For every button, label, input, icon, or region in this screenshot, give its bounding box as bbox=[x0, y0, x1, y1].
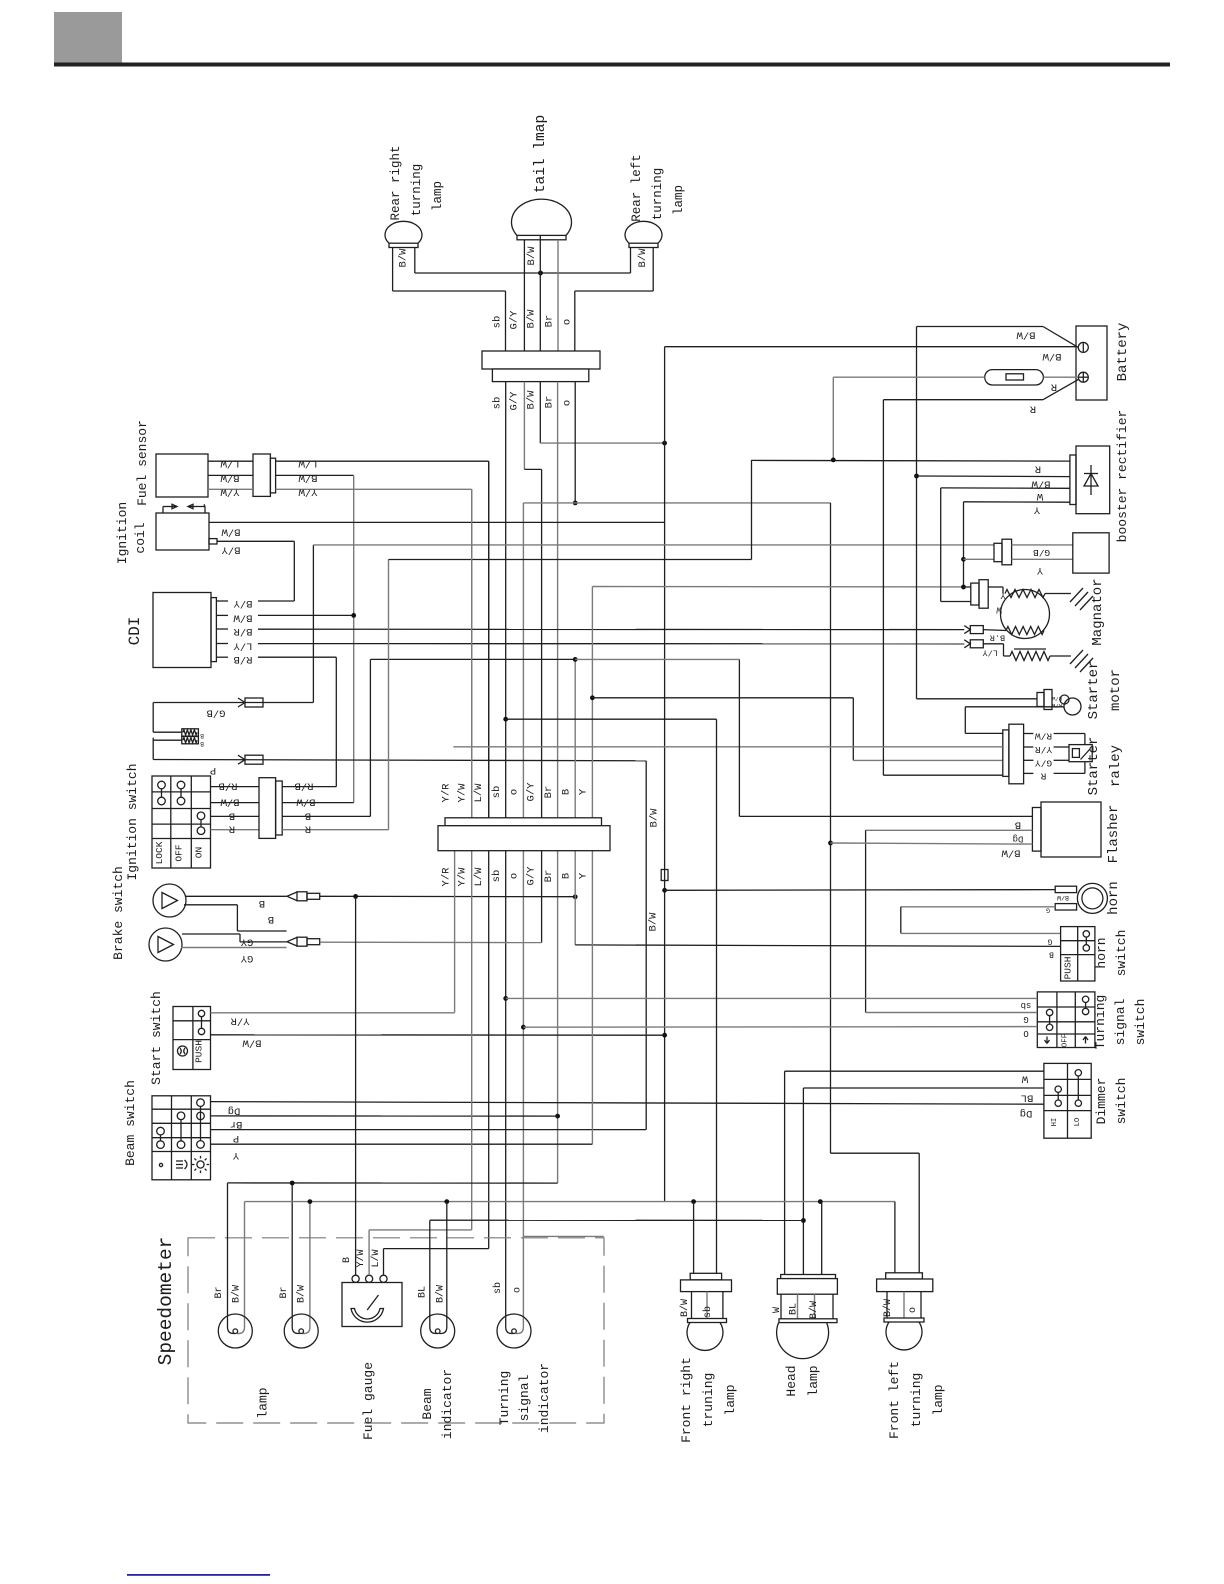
svg-text:Y/W: Y/W bbox=[298, 485, 318, 497]
battery terminal 2 bbox=[1078, 372, 1088, 382]
svg-text:coil: coil bbox=[133, 522, 148, 553]
label B/W tail stem bbox=[526, 246, 538, 266]
svg-text:turning: turning bbox=[651, 168, 665, 221]
svg-text:Br: Br bbox=[230, 1118, 243, 1130]
wire lamp1 B/W bbox=[237, 1202, 245, 1334]
label W rect bbox=[1036, 490, 1043, 502]
svg-text:Dg: Dg bbox=[1013, 834, 1024, 844]
wire L/W center bbox=[488, 461, 490, 1248]
wire B/W ign right bbox=[282, 802, 354, 804]
wire BL bus bbox=[430, 1219, 803, 1221]
svg-text:Magnator: Magnator bbox=[1090, 578, 1106, 645]
svg-text:Front right: Front right bbox=[679, 1357, 694, 1443]
bullet connector B.R bbox=[964, 626, 983, 634]
node headlamp B/W tap bbox=[818, 1199, 823, 1204]
magnator bottom coil bbox=[983, 627, 1044, 635]
node B/W start-switch tap bbox=[662, 1033, 667, 1038]
ignition coil bbox=[156, 513, 209, 550]
svg-text:Br: Br bbox=[544, 315, 556, 328]
label B brake1 bbox=[259, 897, 265, 909]
speedo lamp 1 bbox=[218, 1314, 252, 1348]
wire R/B ign bbox=[211, 786, 260, 788]
svg-text:lamp: lamp bbox=[723, 1384, 738, 1415]
svg-text:B: B bbox=[1015, 819, 1021, 831]
svg-text:B/W: B/W bbox=[298, 471, 318, 483]
tail lamp bbox=[512, 199, 572, 240]
svg-text:W: W bbox=[1036, 490, 1043, 502]
label R/B CDI bbox=[234, 653, 253, 665]
svg-text:switch: switch bbox=[1133, 999, 1148, 1046]
svg-text:o: o bbox=[513, 1287, 524, 1293]
label B/W lamp1 bbox=[231, 1285, 243, 1303]
svg-text:L/W: L/W bbox=[370, 1249, 382, 1267]
label B/W trunk lower bbox=[648, 912, 660, 932]
label sb turn bbox=[1021, 1000, 1032, 1010]
pin B/W CDI bbox=[216, 614, 228, 616]
svg-text:B/W: B/W bbox=[233, 611, 253, 623]
label horn bbox=[1106, 881, 1122, 915]
svg-text:Battery: Battery bbox=[1115, 323, 1131, 382]
svg-text:Starter: Starter bbox=[1086, 737, 1102, 796]
labels above J2 bbox=[441, 782, 590, 803]
svg-text:B: B bbox=[561, 873, 573, 879]
wire B/W main trunk bbox=[664, 347, 666, 1202]
wire G/Y relay stub bbox=[1054, 759, 1069, 761]
label Dg beam bbox=[228, 1105, 241, 1117]
pin Y/R relay bbox=[1024, 746, 1034, 748]
label Fuel sensor bbox=[135, 420, 150, 506]
svg-text:ON: ON bbox=[194, 847, 205, 858]
label B/W horn bbox=[1057, 894, 1069, 901]
svg-text:B/Y: B/Y bbox=[221, 544, 241, 556]
wire B/W horn bbox=[665, 889, 1056, 892]
label B brake2 bbox=[268, 913, 274, 925]
label B ign-l bbox=[229, 809, 235, 821]
wire R/W relay bbox=[1054, 734, 1085, 745]
wire Br trunk bbox=[557, 382, 559, 1184]
label Beam indicator bbox=[420, 1369, 455, 1439]
node B/W tail junction bbox=[538, 271, 543, 276]
svg-text:R/B: R/B bbox=[295, 780, 314, 792]
svg-text:R: R bbox=[1040, 770, 1046, 781]
dimmer icons bbox=[1051, 1118, 1082, 1126]
wire Y/R relay bbox=[1054, 746, 1069, 748]
svg-text:Y/R: Y/R bbox=[230, 1015, 250, 1027]
svg-text:Turning: Turning bbox=[1093, 995, 1108, 1050]
label B/W rear right bbox=[398, 248, 410, 268]
pickup box bbox=[1073, 533, 1109, 573]
label B/W rear left bbox=[637, 248, 649, 268]
wire Y to pickup bbox=[964, 558, 995, 560]
svg-text:B/W: B/W bbox=[435, 1285, 447, 1303]
wire R ign bbox=[211, 829, 260, 831]
turning signal indicator bbox=[497, 1314, 531, 1348]
wire G/Y tail bbox=[523, 240, 525, 351]
wire L/W fuel sensor bbox=[208, 460, 253, 462]
label B/W lamp2 bbox=[296, 1285, 308, 1303]
label Start switch bbox=[149, 991, 164, 1085]
label R/B ign-l bbox=[219, 780, 238, 792]
wire R relay bbox=[1054, 762, 1085, 774]
relay coil bbox=[1069, 745, 1092, 762]
label Dimmer switch bbox=[1094, 1078, 1129, 1125]
svg-text:Br: Br bbox=[214, 1286, 225, 1298]
label Y/R start bbox=[230, 1015, 250, 1027]
svg-text:Y/W: Y/W bbox=[457, 867, 469, 887]
node beamind B/W tap bbox=[444, 1199, 449, 1204]
svg-text:B: B bbox=[305, 809, 311, 821]
svg-text:W: W bbox=[772, 1307, 783, 1313]
label R ign-r bbox=[304, 823, 311, 835]
svg-text:B/W: B/W bbox=[231, 1285, 243, 1303]
wire sb turn switch bbox=[506, 997, 1038, 999]
svg-text:B/W: B/W bbox=[637, 248, 649, 268]
svg-text:motor: motor bbox=[1108, 669, 1124, 711]
svg-text:signal: signal bbox=[1113, 998, 1128, 1045]
svg-text:B/R: B/R bbox=[233, 625, 253, 637]
svg-text:G/Y: G/Y bbox=[509, 391, 521, 411]
svg-text:Front left: Front left bbox=[887, 1361, 902, 1439]
footer blue rule bbox=[127, 1574, 270, 1576]
wire starter motor 2 bbox=[965, 707, 1064, 734]
svg-text:B/W: B/W bbox=[808, 1301, 820, 1319]
labels below J2 bbox=[441, 866, 590, 887]
label G/B pickup bbox=[1033, 547, 1050, 558]
node lamp2 Br tap bbox=[290, 1181, 295, 1186]
label Y/W fuel bbox=[355, 1249, 367, 1267]
wire brake GY to G/Y bbox=[320, 941, 542, 943]
label R/W relay bbox=[1035, 731, 1052, 742]
svg-text:CDI: CDI bbox=[126, 617, 144, 646]
wire Y magnator bbox=[964, 586, 971, 588]
svg-text:B/W: B/W bbox=[221, 526, 241, 538]
wire brake GY jog bbox=[182, 934, 287, 942]
svg-text:B/W: B/W bbox=[242, 1037, 262, 1049]
labels above connector1 bbox=[492, 309, 574, 330]
wire B to horn switch bbox=[575, 945, 1060, 947]
node BL head tap bbox=[801, 1218, 806, 1223]
svg-text:G: G bbox=[1023, 1014, 1028, 1024]
wire Y/W fuel sensor bbox=[208, 488, 253, 490]
svg-text:Beam switch: Beam switch bbox=[123, 1080, 138, 1166]
node Br beam tap bbox=[555, 1114, 560, 1119]
svg-text:Start switch: Start switch bbox=[149, 991, 164, 1085]
pin R relay bbox=[1024, 772, 1034, 774]
svg-text:OFF: OFF bbox=[174, 844, 185, 861]
pin B/R CDI bbox=[216, 628, 228, 630]
wire rear-right stem bbox=[393, 248, 415, 292]
wire Br lamps bus bbox=[228, 1182, 558, 1184]
svg-text:Y/R: Y/R bbox=[441, 867, 453, 887]
svg-text:GY: GY bbox=[240, 952, 253, 964]
label G/B bbox=[207, 707, 226, 719]
svg-text:lamp: lamp bbox=[806, 1365, 821, 1396]
label Dg dimmer bbox=[1020, 1107, 1033, 1119]
wire B flasher bbox=[575, 659, 1032, 816]
svg-text:Dimmer: Dimmer bbox=[1094, 1078, 1109, 1125]
rear left turning lamp bbox=[625, 221, 662, 247]
label B/W frontright bbox=[679, 1299, 691, 1317]
label o turnind bbox=[513, 1287, 524, 1293]
bullet connector P bbox=[238, 755, 263, 764]
node sb-switch tap bbox=[503, 996, 508, 1001]
wire R ign right bbox=[282, 460, 1070, 830]
label P beam bbox=[233, 1132, 239, 1144]
coil top symbol bbox=[163, 504, 205, 513]
wire P riser bbox=[645, 761, 647, 1130]
label L/W right bbox=[298, 457, 318, 469]
wire Br tail bbox=[557, 240, 559, 351]
label lamp bbox=[256, 1387, 271, 1418]
pin R/W relay bbox=[1024, 733, 1034, 735]
ground exciter bbox=[1070, 650, 1093, 672]
wire BL dimmer bbox=[803, 1088, 1044, 1275]
svg-text:Dg: Dg bbox=[1020, 1107, 1033, 1119]
wire G/B lower bbox=[153, 702, 313, 704]
svg-text:Y/W: Y/W bbox=[457, 783, 469, 803]
wire W magnator bbox=[941, 601, 971, 603]
label Turning signal indicator bbox=[497, 1363, 552, 1433]
wire rear-left to o bbox=[575, 291, 653, 351]
svg-text:Br: Br bbox=[544, 396, 556, 409]
svg-text:Y/W: Y/W bbox=[220, 485, 240, 497]
svg-text:L/Y: L/Y bbox=[233, 640, 253, 652]
node Y low tap bbox=[961, 585, 966, 590]
wire B ign right bbox=[282, 659, 575, 816]
svg-text:B: B bbox=[259, 897, 265, 909]
start switch bbox=[173, 1007, 211, 1070]
wire lamp1 Br bbox=[228, 1183, 236, 1334]
diode symbol bbox=[1084, 465, 1098, 495]
svg-text:lamp: lamp bbox=[931, 1384, 946, 1415]
label W head bbox=[772, 1307, 783, 1313]
svg-text:R/B: R/B bbox=[1051, 702, 1062, 709]
wire R battery fuse bbox=[833, 377, 1078, 460]
svg-text:Dg: Dg bbox=[228, 1105, 241, 1117]
node frontright B/W tap bbox=[691, 1199, 696, 1204]
svg-text:B/W: B/W bbox=[648, 912, 660, 932]
node B ign tap bbox=[573, 657, 578, 662]
node o switch tap bbox=[521, 1025, 526, 1030]
label B ign-r bbox=[305, 809, 311, 821]
fuel sensor bbox=[156, 454, 208, 497]
wire B/W battery straight bbox=[665, 346, 1076, 348]
wire G/Y upper bbox=[524, 382, 541, 943]
label Head lamp bbox=[784, 1365, 821, 1396]
label O turn bbox=[1023, 1028, 1028, 1038]
label B/W rect bbox=[1031, 478, 1051, 490]
label booster rectifier bbox=[1115, 410, 1130, 543]
svg-text:BL: BL bbox=[789, 1303, 800, 1315]
wire R/B ign right bbox=[282, 786, 336, 788]
rear right turning lamp bbox=[385, 221, 422, 247]
wire B/W beam ind bbox=[439, 1202, 447, 1334]
wire B center bbox=[574, 659, 576, 945]
svg-text:P: P bbox=[233, 1132, 239, 1144]
svg-text:B.R: B.R bbox=[990, 633, 1005, 643]
svg-text:B/W: B/W bbox=[882, 1299, 894, 1317]
label Front left turning lamp bbox=[887, 1361, 946, 1439]
node B/W CDI tap bbox=[351, 613, 356, 618]
wire Y starter run bbox=[592, 697, 853, 699]
svg-text:sb: sb bbox=[491, 870, 503, 883]
starter motor bbox=[1060, 695, 1081, 715]
label B/W left fs bbox=[220, 471, 240, 483]
label Rear left turning lamp bbox=[630, 154, 686, 222]
svg-text:sb: sb bbox=[1021, 1000, 1032, 1010]
label B/R CDI bbox=[233, 625, 253, 637]
node fuel-gauge B tap bbox=[353, 894, 358, 899]
svg-text:R: R bbox=[304, 823, 311, 835]
wire brake GY bbox=[181, 947, 287, 949]
battery terminal 1 bbox=[1078, 342, 1088, 352]
wire G horn bbox=[901, 907, 1061, 934]
label G turn bbox=[1023, 1014, 1028, 1024]
header gray block bbox=[54, 12, 122, 64]
label Speedometer bbox=[155, 1237, 177, 1366]
svg-text:R: R bbox=[228, 823, 235, 835]
wire Y/W fuel gauge bbox=[369, 1230, 472, 1275]
node sb-lamp tap bbox=[503, 717, 508, 722]
svg-text:B: B bbox=[229, 809, 235, 821]
label B/W right fs bbox=[298, 471, 318, 483]
svg-text:B: B bbox=[342, 1257, 353, 1263]
horn bbox=[1077, 883, 1107, 913]
noise suppressor bbox=[182, 729, 204, 747]
wire B/W front left bbox=[894, 1202, 896, 1273]
label R batt1 bbox=[1050, 381, 1057, 393]
label R batt2 bbox=[1029, 403, 1036, 415]
front right turning lamp bbox=[681, 1273, 732, 1350]
battery bbox=[1076, 326, 1107, 400]
svg-text:Y: Y bbox=[1033, 504, 1040, 516]
label G horn bbox=[1046, 907, 1050, 914]
bullet connector G/B bbox=[238, 698, 263, 707]
label Br lamp1 bbox=[214, 1286, 225, 1298]
label B.R bbox=[990, 633, 1005, 643]
wire B/Y coil bbox=[217, 541, 294, 601]
wire o crossbar bbox=[523, 502, 830, 504]
flasher bbox=[1032, 802, 1101, 857]
wire B ign bbox=[211, 815, 260, 817]
wire G/B riser bbox=[312, 545, 314, 703]
wire rear-right to sb bbox=[393, 291, 506, 351]
wire sb trunk bbox=[505, 382, 507, 1314]
label B/W trunk upper bbox=[649, 808, 661, 828]
svg-text:Y: Y bbox=[232, 1149, 239, 1161]
svg-text:Fuel sensor: Fuel sensor bbox=[135, 420, 150, 506]
svg-text:Speedometer: Speedometer bbox=[155, 1237, 177, 1366]
svg-text:Ignition switch: Ignition switch bbox=[125, 763, 140, 880]
svg-text:Beam: Beam bbox=[420, 1388, 435, 1419]
svg-text:o: o bbox=[509, 789, 521, 795]
magnator top coil bbox=[988, 587, 1071, 598]
svg-text:Head: Head bbox=[784, 1365, 799, 1396]
svg-text:R/B: R/B bbox=[219, 780, 238, 792]
wire B/W front right bbox=[693, 1202, 695, 1274]
svg-text:sb: sb bbox=[492, 1282, 504, 1294]
wire L/W to J2 bbox=[276, 461, 489, 818]
svg-text:Turning: Turning bbox=[497, 1371, 512, 1426]
wire Y center bbox=[591, 587, 593, 1145]
pin G/Y relay bbox=[1024, 759, 1034, 761]
node rectifier B/W tap bbox=[914, 474, 919, 479]
wire L/Y CDI to magnator bbox=[258, 643, 964, 645]
svg-text:lamp: lamp bbox=[431, 181, 445, 211]
label Magnator bbox=[1090, 578, 1106, 645]
wire R battery diag bbox=[883, 380, 1078, 400]
pin B/Y CDI bbox=[216, 600, 228, 602]
svg-text:B/W: B/W bbox=[526, 246, 538, 266]
svg-text:B/W: B/W bbox=[296, 796, 316, 808]
wire rear-left stem bbox=[631, 248, 654, 292]
svg-text:Starter: Starter bbox=[1086, 661, 1102, 720]
label B/W batt2 bbox=[1042, 350, 1062, 362]
svg-text:o: o bbox=[562, 400, 574, 406]
svg-text:Y: Y bbox=[1036, 564, 1043, 576]
label Front right truning lamp bbox=[679, 1357, 738, 1443]
svg-text:R/W: R/W bbox=[1035, 731, 1052, 742]
label Starter raley bbox=[1086, 737, 1124, 796]
wire B/W fs to ign-switch bbox=[276, 475, 354, 802]
svg-text:sb: sb bbox=[492, 316, 504, 329]
svg-text:B/W: B/W bbox=[526, 390, 538, 410]
wire B/W rectifier bbox=[917, 475, 1070, 478]
svg-text:G/Y: G/Y bbox=[509, 310, 521, 330]
svg-text:sb: sb bbox=[702, 1306, 714, 1318]
label B horn switch bbox=[1049, 950, 1054, 959]
label LOCK OFF ON bbox=[154, 841, 205, 864]
svg-text:Br: Br bbox=[543, 786, 555, 799]
fuel gauge dial bbox=[351, 1295, 384, 1322]
label Battery bbox=[1115, 323, 1131, 382]
svg-text:R: R bbox=[1029, 403, 1036, 415]
connector ignition switch bbox=[259, 778, 282, 839]
label horn switch bbox=[1094, 930, 1129, 977]
label L/Y magnator bbox=[983, 648, 998, 658]
connector fuel sensor bbox=[253, 454, 276, 496]
connector starter motor bbox=[1037, 690, 1062, 710]
wire B/W tail bbox=[539, 235, 541, 351]
svg-text:G/B: G/B bbox=[207, 707, 226, 719]
label P bbox=[210, 764, 216, 776]
svg-text:G/Y: G/Y bbox=[526, 782, 538, 802]
svg-text:Y/R: Y/R bbox=[441, 783, 453, 803]
wire Dg flasher bbox=[866, 830, 1033, 1012]
node R battery tap bbox=[831, 458, 836, 463]
wire B/W tail drop bbox=[540, 382, 664, 444]
label W magnator bbox=[996, 605, 1002, 615]
turning signal switch bbox=[1037, 992, 1095, 1048]
svg-text:o: o bbox=[908, 1307, 919, 1313]
beam switch bbox=[152, 1096, 211, 1180]
wire brake B bbox=[186, 895, 287, 897]
labels below connector1 bbox=[492, 390, 574, 411]
node lamp2 B/W tap bbox=[308, 1199, 313, 1204]
wire B fuel gauge bbox=[355, 896, 357, 1275]
label B/W beamind bbox=[435, 1285, 447, 1303]
label L/Y CDI bbox=[233, 640, 253, 652]
label Y pickup bbox=[1036, 564, 1043, 576]
label BL beamind bbox=[418, 1286, 429, 1298]
svg-text:R: R bbox=[1050, 381, 1057, 393]
svg-text:Br: Br bbox=[543, 870, 555, 883]
label Y/R relay bbox=[1035, 744, 1052, 755]
label B/W start bbox=[242, 1037, 262, 1049]
svg-text:B/W: B/W bbox=[296, 1285, 308, 1303]
bullet connector brake B bbox=[287, 892, 320, 901]
svg-text:G/B: G/B bbox=[1033, 547, 1050, 558]
